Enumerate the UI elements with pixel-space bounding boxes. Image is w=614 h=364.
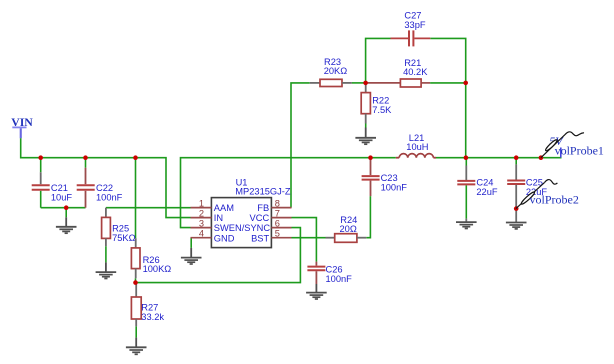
wire pin8 FB up to R23: [291, 83, 310, 208]
svg-text:100nF: 100nF: [381, 182, 408, 192]
svg-text:22uF: 22uF: [476, 187, 498, 197]
wire node to C27 left: [366, 38, 391, 83]
node rail VIN at C22: [83, 155, 88, 160]
svg-text:75KΩ: 75KΩ: [112, 233, 136, 243]
svg-text:2: 2: [199, 209, 204, 219]
capacitor C23: [362, 159, 408, 197]
svg-text:MP2315GJ-Z: MP2315GJ-Z: [235, 187, 291, 197]
node C25 probe: [514, 206, 519, 211]
wire C25 top: [515, 158, 517, 165]
resistor R24: [326, 215, 367, 242]
wire R21 right to node: [430, 82, 466, 84]
svg-text:volProbe1: volProbe1: [555, 143, 604, 157]
ground G5 below C26: [306, 284, 327, 299]
svg-text:40.2K: 40.2K: [403, 67, 428, 77]
node C21/C22 gnd: [64, 205, 69, 210]
op-amp U1 MP2315GJ-Z body: [211, 177, 291, 247]
node VOUT probe: [539, 155, 544, 160]
node rail VIN at C21: [38, 155, 43, 160]
port VIN: [11, 115, 33, 139]
svg-text:4: 4: [199, 229, 204, 239]
wire SW rail and pin3 SWEN/SYNC: [181, 158, 396, 228]
pin 4 GND: [191, 229, 235, 244]
pin 1 AAM: [191, 199, 234, 214]
node R21/C27 right: [463, 81, 468, 86]
svg-text:VCC: VCC: [250, 213, 270, 223]
resistor R27: [131, 283, 164, 327]
pin 7 VCC: [250, 209, 292, 224]
wire C21/C22 bottom bus: [41, 207, 86, 209]
wire R26 bottom to node FB1: [135, 278, 137, 282]
resistor R22: [361, 84, 392, 124]
node rail VIN at R26: [133, 155, 138, 160]
wire R25 to pin1 AAM: [106, 207, 191, 209]
wire pin5 BST to R24: [292, 237, 326, 239]
probe volProbe1: [541, 132, 604, 158]
capacitor C26: [307, 262, 352, 284]
wire C21 top: [40, 158, 42, 173]
wire C24 top: [465, 158, 467, 166]
svg-text:BST: BST: [251, 233, 269, 243]
pin 8 FB: [257, 199, 291, 214]
inductor L21: [396, 133, 436, 158]
wire C27 right down to R21 node: [430, 38, 465, 83]
svg-text:AAM: AAM: [214, 203, 234, 213]
svg-text:volProbe2: volProbe2: [530, 193, 579, 207]
wire VIN rail to pin2 IN: [21, 138, 191, 217]
svg-text:7: 7: [275, 209, 280, 219]
resistor R21: [368, 58, 431, 87]
svg-text:GND: GND: [214, 233, 235, 243]
svg-text:SWEN/SYNC: SWEN/SYNC: [214, 223, 271, 233]
wire R21 node down to rail: [465, 83, 467, 158]
capacitor C21: [32, 172, 73, 202]
svg-text:100nF: 100nF: [326, 274, 353, 284]
resistor R23: [310, 57, 352, 87]
wire ground stem G1: [65, 208, 67, 218]
capacitor C24: [457, 166, 498, 222]
wire C21 bottom: [40, 191, 42, 208]
capacitor C27: [391, 11, 431, 47]
ground G2 below R25: [96, 262, 117, 278]
pin 6: [271, 219, 291, 229]
node FB network: [363, 81, 368, 86]
wire R26 from rail: [135, 158, 137, 239]
ground G3 pin4: [181, 248, 202, 264]
resistor R26: [131, 238, 171, 278]
wire pin4 GND down: [190, 238, 192, 248]
pin 3 SWEN/SYNC: [191, 219, 271, 234]
svg-text:IN: IN: [214, 213, 223, 223]
svg-text:6: 6: [275, 219, 280, 229]
svg-text:FB: FB: [257, 203, 269, 213]
wire divider node to pin6: [136, 228, 301, 283]
node VOUT at C25: [514, 155, 519, 160]
svg-text:20Ω: 20Ω: [340, 224, 357, 234]
svg-text:5: 5: [275, 229, 280, 239]
wire R24 to C23 bottom: [366, 196, 370, 238]
svg-text:100KΩ: 100KΩ: [143, 264, 172, 274]
resistor R25: [102, 208, 136, 247]
svg-text:8: 8: [275, 199, 280, 209]
wire SW rail right of L21: [436, 157, 562, 159]
capacitor C22: [77, 168, 123, 208]
svg-text:33.2k: 33.2k: [141, 312, 164, 322]
pin 2 IN: [191, 209, 224, 224]
svg-text:100nF: 100nF: [96, 192, 123, 202]
wire R22 ground segment: [365, 124, 367, 128]
wire R23 right to node: [352, 82, 366, 84]
svg-text:7.5K: 7.5K: [372, 105, 392, 115]
capacitor C25: [507, 164, 547, 222]
wire R27 ground segment: [135, 326, 137, 337]
net 5V anchor tick: [560, 148, 562, 158]
svg-text:1: 1: [199, 199, 204, 209]
svg-text:10uH: 10uH: [406, 142, 428, 152]
wire pin7 VCC to C26: [292, 218, 317, 262]
wire C24 bottom: [465, 185, 467, 218]
ground G8 below R27: [126, 338, 147, 355]
ground G7 below C25: [506, 223, 527, 229]
ground G6 below C24: [456, 222, 477, 228]
pin 5 BST: [251, 229, 291, 244]
wire R25 ground segment: [105, 246, 107, 262]
svg-text:20KΩ: 20KΩ: [324, 66, 348, 76]
svg-text:33pF: 33pF: [404, 20, 426, 30]
probe volProbe2: [516, 180, 579, 209]
wire C22 top: [85, 158, 87, 168]
svg-text:10uF: 10uF: [51, 192, 73, 202]
node R26/R27 divider: [133, 280, 138, 285]
ground G4 below R22: [355, 128, 376, 145]
node VOUT at C24: [464, 155, 469, 160]
node SW at C23: [368, 155, 373, 160]
ground G1: [56, 217, 77, 233]
svg-text:3: 3: [199, 219, 204, 229]
